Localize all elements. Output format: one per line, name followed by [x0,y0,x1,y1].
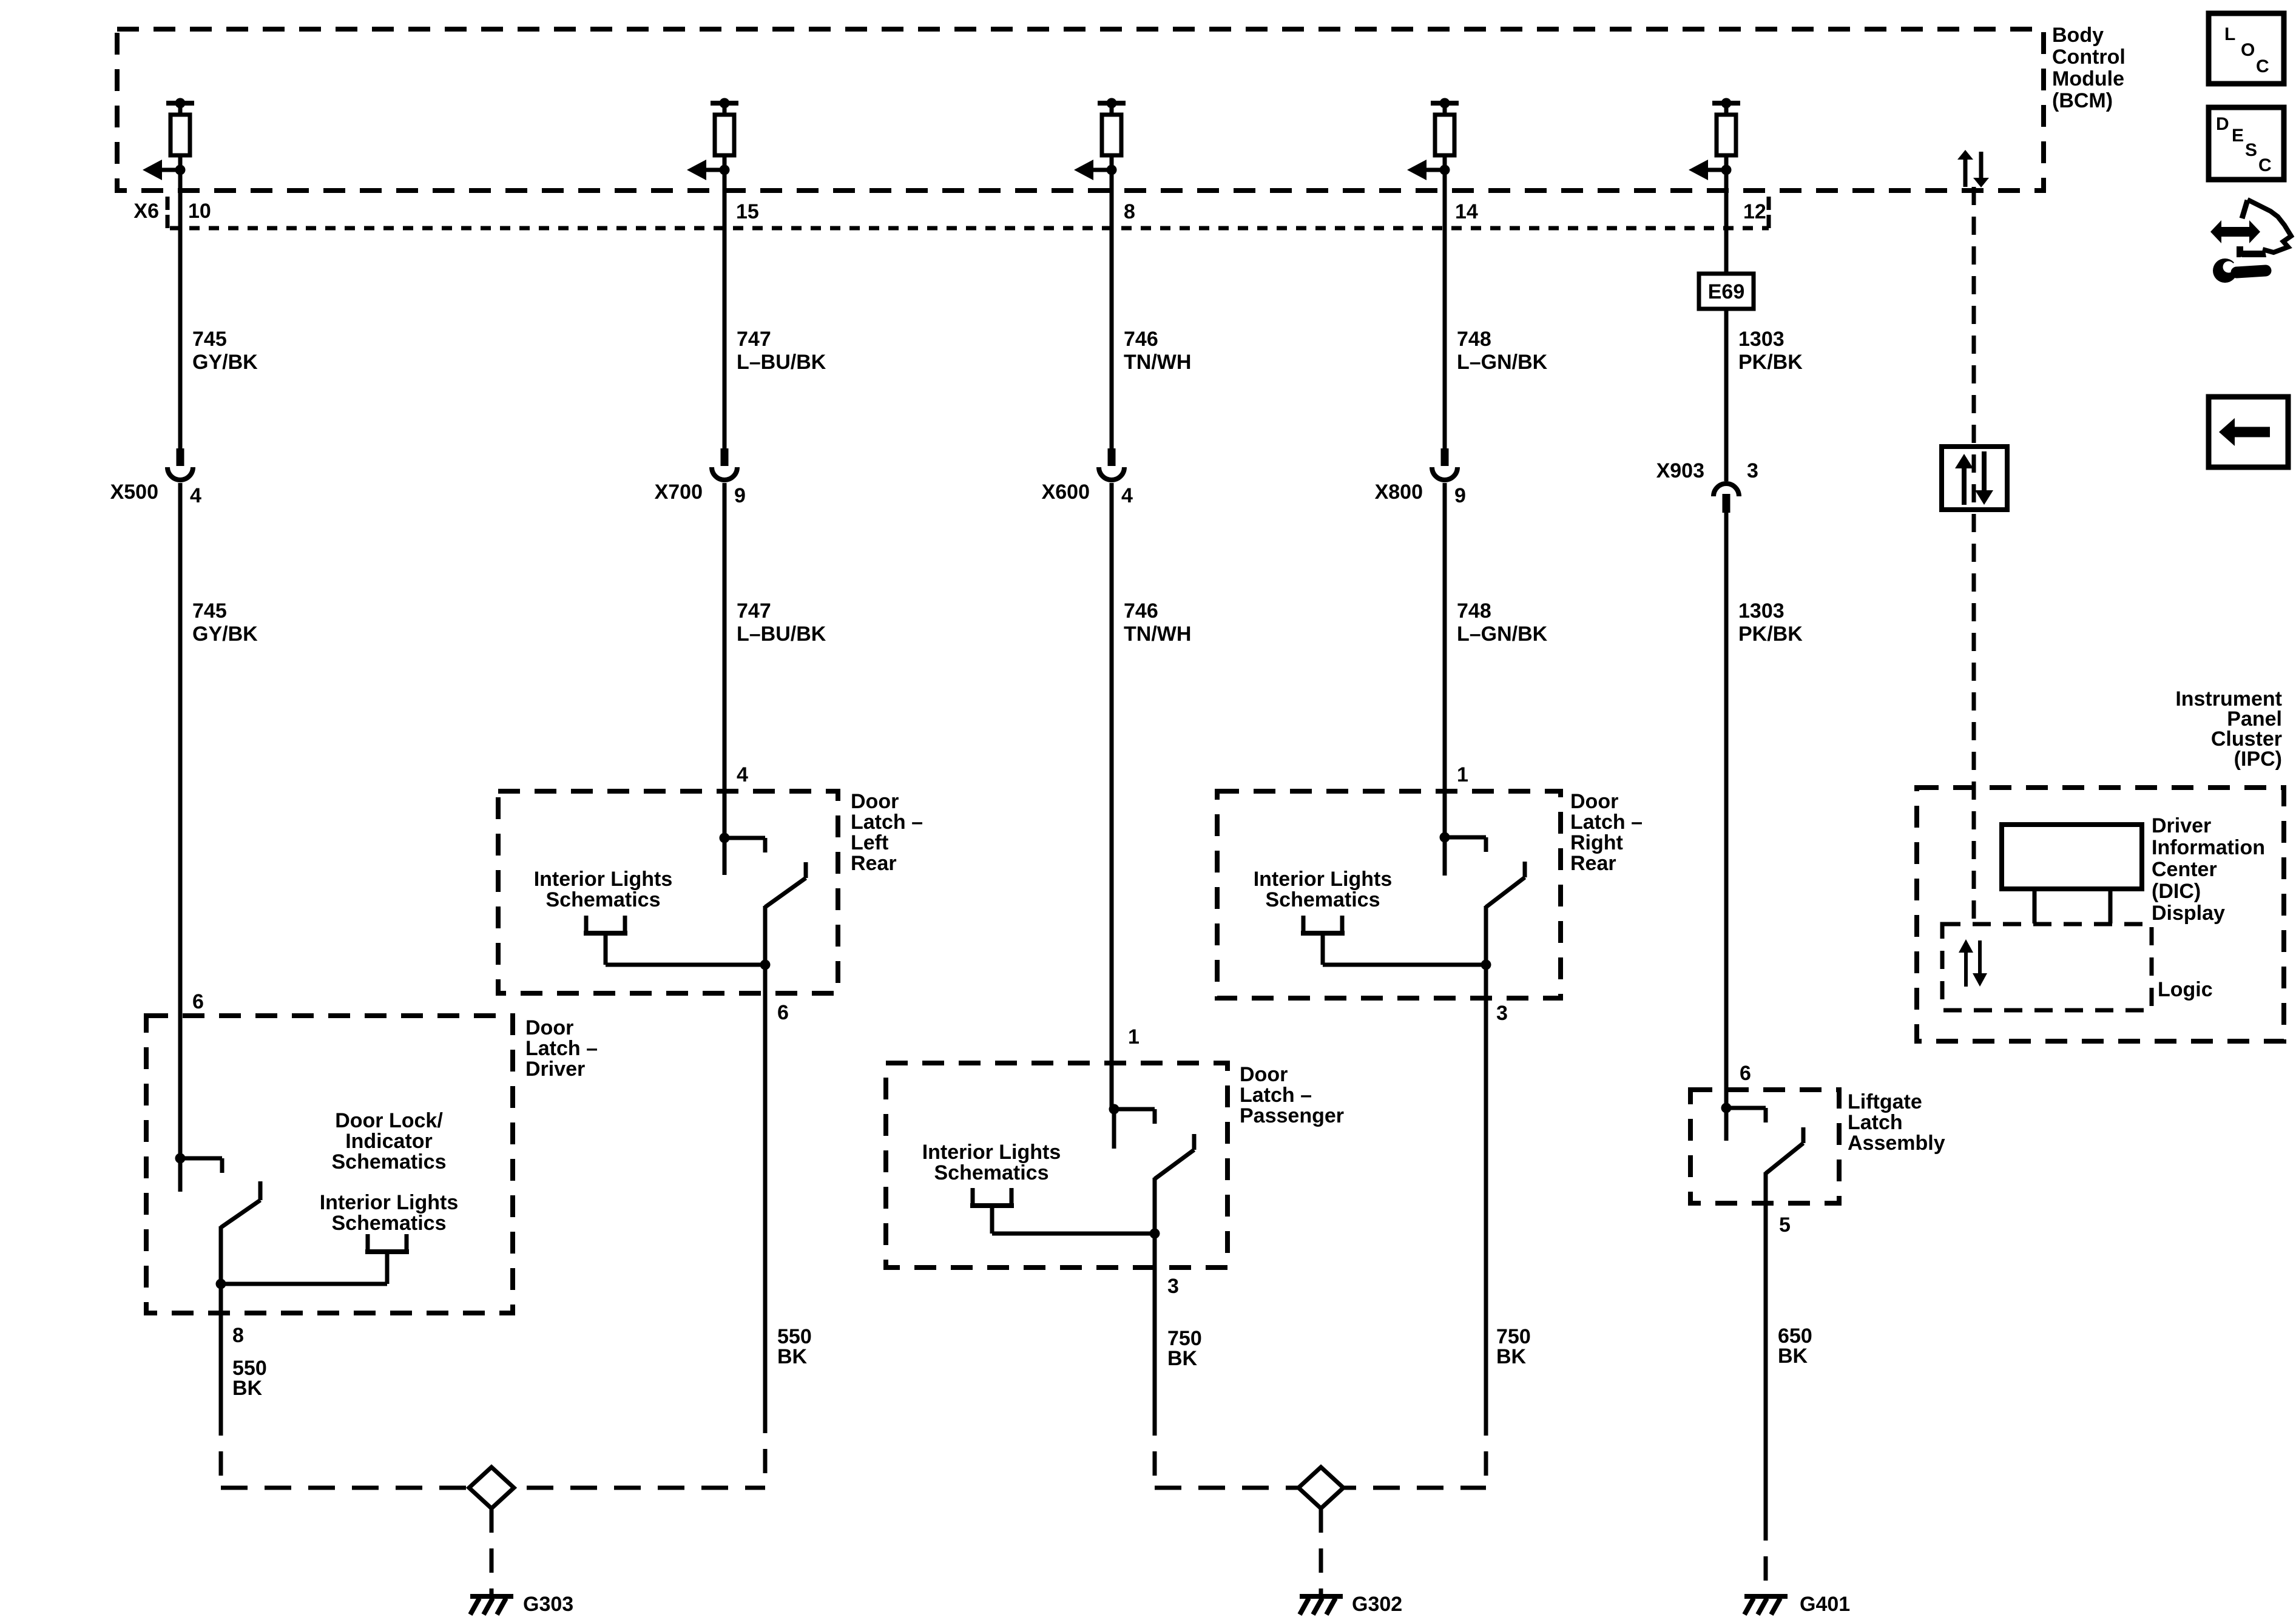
bracket drop wire (driver) [221,1254,387,1284]
svg-text:4: 4 [737,763,748,786]
passenger latch output junction dot [1150,1229,1160,1239]
passenger latch contact hook [1114,1109,1155,1124]
svg-text:Latch: Latch [1848,1111,1903,1134]
Door Latch - Passenger dashed box [886,1063,1227,1268]
resistor R3 (BCM driver) [1102,115,1121,155]
svg-text:L–GN/BK: L–GN/BK [1457,623,1548,646]
connector E69 box [1699,274,1754,309]
dashed drop to G303 [490,1508,494,1595]
svg-text:3: 3 [1167,1275,1179,1298]
BCM internal pin bar wire 1 [166,98,194,115]
resistor R2 (BCM driver) [715,115,734,155]
svg-text:Passenger: Passenger [1240,1104,1344,1127]
svg-text:GY/BK: GY/BK [192,351,258,374]
BCM internal left arrow wire 3 [1074,160,1112,180]
connector test adapter icon [2210,200,2291,257]
svg-text:Latch –: Latch – [525,1037,598,1060]
svg-text:3: 3 [1496,1002,1508,1025]
left arrow legend box [2209,397,2288,467]
svg-text:746: 746 [1124,328,1158,351]
Instrument Panel Cluster dashed box [1917,788,2284,1041]
svg-text:Left: Left [851,831,888,854]
svg-text:D: D [2216,114,2229,134]
bracket drop wire (passenger) [992,1208,1155,1234]
svg-text:1303: 1303 [1738,328,1784,351]
left rear latch contact hook [724,838,765,852]
wire label 750 BK (passenger) [1167,1327,1202,1370]
passenger latch wire stub [1112,1109,1116,1149]
wire 745 GY/BK upper [178,170,183,448]
svg-text:Schematics: Schematics [934,1161,1049,1184]
svg-text:Door Lock/: Door Lock/ [335,1109,443,1132]
svg-text:Module: Module [2052,67,2124,90]
wire label 748 L–GN/BK (upper) [1457,328,1548,374]
svg-text:PK/BK: PK/BK [1738,351,1803,374]
svg-text:Right: Right [1570,831,1623,854]
passenger latch switch lever [1155,1134,1194,1234]
svg-text:L–BU/BK: L–BU/BK [737,623,826,646]
wire 1303 PK/BK lower [1724,513,1729,1108]
svg-text:X800: X800 [1375,481,1423,504]
svg-text:Interior Lights: Interior Lights [534,868,673,891]
svg-text:PK/BK: PK/BK [1738,623,1803,646]
driver latch switch lever [221,1181,260,1284]
in-line connector X700 [712,448,737,480]
wire resistor to junction 1 [178,155,183,170]
wire label 550 BK (left rear) [777,1325,812,1368]
svg-text:L–GN/BK: L–GN/BK [1457,351,1548,374]
Door Latch - Driver dashed box [146,1016,513,1313]
svg-text:S: S [2245,140,2257,160]
wire label 748 L–GN/BK (mid) [1457,599,1548,646]
BCM serial data up/down arrows [1957,150,1989,187]
BCM internal left arrow wire 2 [687,160,724,180]
splice diamond S-left [469,1467,514,1508]
driver latch junction dot [175,1153,186,1164]
svg-text:C: C [2256,56,2269,76]
BCM label [2052,24,2125,112]
BCM internal left arrow wire 1 [143,160,180,180]
svg-text:14: 14 [1455,200,1478,223]
svg-text:5: 5 [1779,1214,1791,1237]
svg-text:1303: 1303 [1738,599,1784,623]
right rear latch output wire [1484,965,1488,1411]
svg-text:X903: X903 [1656,459,1704,482]
right rear latch contact hook [1445,837,1486,852]
svg-text:747: 747 [737,599,771,623]
wire label 747 L–BU/BK (mid) [737,599,826,646]
svg-text:9: 9 [1454,484,1466,507]
off-page bracket (right rear) [1301,916,1345,936]
svg-text:8: 8 [232,1324,244,1347]
driver latch contact hook [180,1158,222,1173]
serial data dashed wire BCM to IPC [1972,187,1976,924]
dashed ground wire from left rear latch [763,1409,768,1488]
in-line connector X800 [1432,448,1457,480]
wire label 745 GY/BK (upper) [192,328,258,374]
svg-text:O: O [2241,40,2255,60]
off-page bracket (driver) [365,1234,409,1254]
Door Latch - Left Rear label [851,790,923,875]
svg-text:1: 1 [1457,763,1468,786]
svg-text:Logic: Logic [2158,978,2213,1001]
DIC display legs [2034,889,2110,923]
svg-text:6: 6 [1740,1062,1751,1085]
dashed ground wire from passenger latch [1153,1411,1157,1488]
wire label 1303 PK/BK (mid) [1738,599,1803,646]
resistor R4 (BCM driver) [1435,115,1454,155]
svg-text:9: 9 [734,484,746,507]
junction dot wire 4 [1440,165,1450,175]
wire 1303 PK/BK upper [1724,170,1729,481]
DIC display rectangle [2002,825,2142,889]
svg-text:Interior Lights: Interior Lights [1254,868,1393,891]
svg-text:C: C [2258,155,2272,175]
Door Latch - Right Rear dashed box [1217,791,1561,998]
Interior Lights Schematics label (left rear) [534,868,673,911]
left rear latch wire stub [723,838,727,875]
svg-text:Schematics: Schematics [332,1150,447,1173]
svg-text:3: 3 [1747,459,1758,482]
BCM internal left arrow wire 5 [1689,160,1726,180]
svg-text:Schematics: Schematics [1266,888,1380,911]
svg-text:Schematics: Schematics [546,888,661,911]
svg-text:(BCM): (BCM) [2052,89,2113,112]
svg-text:Information: Information [2152,836,2265,859]
wire resistor to junction 5 [1724,155,1729,170]
svg-text:G401: G401 [1800,1593,1850,1616]
svg-text:Assembly: Assembly [1848,1132,1945,1155]
Door Latch - Right Rear label [1570,790,1643,875]
BCM internal pin bar wire 5 [1712,98,1740,115]
svg-text:748: 748 [1457,599,1491,623]
junction dot wire 2 [720,165,730,175]
wire 747 L-BU/BK upper [723,170,727,448]
svg-text:TN/WH: TN/WH [1124,623,1191,646]
liftgate latch switch lever [1766,1127,1803,1516]
right rear latch junction dot [1440,832,1450,843]
BCM internal pin bar wire 2 [711,98,738,115]
resistor R1 (BCM driver) [171,115,190,155]
wire resistor to junction 3 [1110,155,1114,170]
wire label 745 GY/BK (mid) [192,599,258,646]
svg-text:GY/BK: GY/BK [192,623,258,646]
svg-text:G302: G302 [1352,1593,1402,1616]
svg-text:745: 745 [192,328,227,351]
logic up/down arrows [1959,939,1987,987]
svg-text:Door: Door [525,1016,573,1039]
wire label 650 BK (liftgate) [1778,1325,1812,1368]
svg-text:X6: X6 [133,200,159,223]
svg-text:BK: BK [1778,1345,1808,1368]
liftgate latch contact hook [1726,1108,1766,1122]
dashed ground wire from right rear latch [1484,1411,1488,1488]
ground bus splice wires (left) [221,1486,765,1490]
IPC label [2175,687,2282,771]
wire 746 TN/WH lower [1110,483,1114,1109]
serial data legend box with up/down arrows [1942,447,2007,510]
svg-text:Door: Door [1570,790,1618,813]
svg-text:Interior Lights: Interior Lights [320,1191,459,1214]
wire 746 TN/WH upper [1110,170,1114,448]
svg-text:E: E [2232,126,2244,146]
DESC legend box [2209,107,2284,180]
ground G401 [1744,1596,1788,1615]
Interior Lights Schematics label (right rear) [1254,868,1393,911]
wire label 747 L–BU/BK (upper) [737,328,826,374]
Interior Lights Schematics label (passenger) [922,1141,1061,1184]
right rear latch wire stub [1443,837,1447,876]
svg-text:Display: Display [2152,902,2225,925]
junction dot wire 3 [1107,165,1117,175]
off-page bracket (left rear) [584,916,627,936]
dashed drop to G302 [1319,1508,1323,1595]
wire resistor to junction 4 [1443,155,1447,170]
svg-text:12: 12 [1743,200,1766,223]
driver latch output junction dot [216,1279,226,1289]
svg-text:Body: Body [2052,24,2104,47]
svg-text:Driver: Driver [525,1058,585,1081]
svg-text:Control: Control [2052,46,2125,69]
svg-text:Latch –: Latch – [1570,811,1643,834]
passenger latch junction dot [1109,1104,1119,1115]
BCM internal pin bar wire 4 [1431,98,1459,115]
dashed ground wire from driver latch [219,1411,223,1488]
wire 748 L-GN/BK lower [1443,483,1447,837]
passenger latch output wire [1153,1234,1157,1411]
ground G302 [1300,1596,1343,1615]
dashed drop to G401 [1764,1516,1768,1595]
svg-text:Rear: Rear [1570,852,1616,875]
Interior Lights Schematics label (driver) [320,1191,459,1235]
wire 748 L-GN/BK upper [1443,170,1447,448]
svg-text:L–BU/BK: L–BU/BK [737,351,826,374]
svg-text:G303: G303 [523,1593,573,1616]
svg-text:10: 10 [188,200,211,223]
junction dot wire 1 [175,165,186,175]
svg-text:(DIC): (DIC) [2152,880,2201,903]
Door Lock/Indicator Schematics label [332,1109,447,1173]
svg-text:4: 4 [1121,484,1133,507]
Door Latch - Left Rear dashed box [498,791,838,993]
connector X6 right separator [1767,197,1771,228]
svg-text:Interior Lights: Interior Lights [922,1141,1061,1164]
bracket drop wire (left rear) [606,936,765,965]
in-line connector X500 [167,448,193,480]
wire label 746 TN/WH (mid) [1124,599,1191,646]
svg-text:Liftgate: Liftgate [1848,1090,1922,1113]
ground G303 [470,1596,513,1615]
svg-text:TN/WH: TN/WH [1124,351,1191,374]
BCM internal left arrow wire 4 [1407,160,1445,180]
svg-text:BK: BK [1167,1347,1198,1370]
svg-text:Latch –: Latch – [851,811,923,834]
svg-text:745: 745 [192,599,227,623]
svg-text:6: 6 [777,1001,789,1024]
svg-text:Driver: Driver [2152,814,2211,837]
svg-text:BK: BK [777,1345,808,1368]
svg-text:748: 748 [1457,328,1491,351]
Body Control Module (BCM) dashed box [117,29,2044,191]
driver latch output wire [219,1284,223,1411]
connector X6 left separator [166,197,170,228]
svg-text:Door: Door [851,790,899,813]
left rear latch output wire [763,965,768,1409]
BCM internal pin bar wire 3 [1098,98,1126,115]
wire label 550 BK (driver) [232,1357,267,1400]
off-page bracket (passenger) [970,1188,1014,1208]
driver latch wire stub [178,1158,183,1192]
wire 747 L-BU/BK lower [723,483,727,838]
svg-text:X500: X500 [110,481,158,504]
wire label 746 TN/WH (upper) [1124,328,1191,374]
right rear latch switch lever [1486,862,1525,965]
svg-text:15: 15 [736,200,759,223]
Liftgate Latch Assembly label [1848,1090,1945,1155]
svg-text:Center: Center [2152,858,2217,881]
svg-text:(IPC): (IPC) [2234,748,2282,771]
wire 745 GY/BK lower [178,483,183,1158]
svg-text:Rear: Rear [851,852,897,875]
wire resistor to junction 2 [723,155,727,170]
resistor R5 (BCM driver) [1717,115,1736,155]
in-line connector X600 [1099,448,1124,480]
connector X6 dotted line [170,226,1769,231]
svg-text:1: 1 [1128,1025,1140,1048]
svg-text:BK: BK [232,1377,263,1400]
liftgate latch wire stub [1724,1108,1729,1141]
Liftgate Latch Assembly dashed box [1690,1090,1839,1203]
wire label 750 BK (right rear) [1496,1325,1531,1368]
liftgate latch junction dot [1721,1103,1732,1113]
svg-text:746: 746 [1124,599,1158,623]
in-line connector X903 [1714,484,1739,513]
bracket drop wire (right rear) [1323,936,1486,965]
svg-text:Schematics: Schematics [332,1212,447,1235]
junction dot wire 5 [1721,165,1732,175]
left rear latch switch lever [765,862,806,965]
svg-text:8: 8 [1124,200,1135,223]
right rear latch output junction dot [1481,960,1491,970]
wire label 1303 PK/BK (upper) [1738,328,1803,374]
left rear latch output junction dot [760,960,771,970]
svg-text:L: L [2224,24,2235,44]
ground bus splice wires (right) [1155,1486,1486,1490]
Door Latch - Driver label [525,1016,598,1081]
splice diamond S-right [1298,1467,1343,1508]
LOC legend box [2209,13,2284,84]
svg-text:747: 747 [737,328,771,351]
left rear latch junction dot [720,833,730,843]
Logic dashed box [1942,924,2152,1010]
svg-text:E69: E69 [1708,280,1745,303]
svg-text:X600: X600 [1042,481,1090,504]
wrench icon [2213,257,2266,283]
svg-text:4: 4 [190,484,201,507]
svg-text:X700: X700 [655,481,703,504]
svg-text:Indicator: Indicator [345,1130,433,1153]
DIC label [2152,814,2265,925]
Door Latch - Passenger label [1240,1063,1344,1127]
svg-text:6: 6 [192,990,204,1013]
svg-text:BK: BK [1496,1345,1527,1368]
svg-text:Door: Door [1240,1063,1288,1086]
svg-text:Latch –: Latch – [1240,1084,1312,1107]
